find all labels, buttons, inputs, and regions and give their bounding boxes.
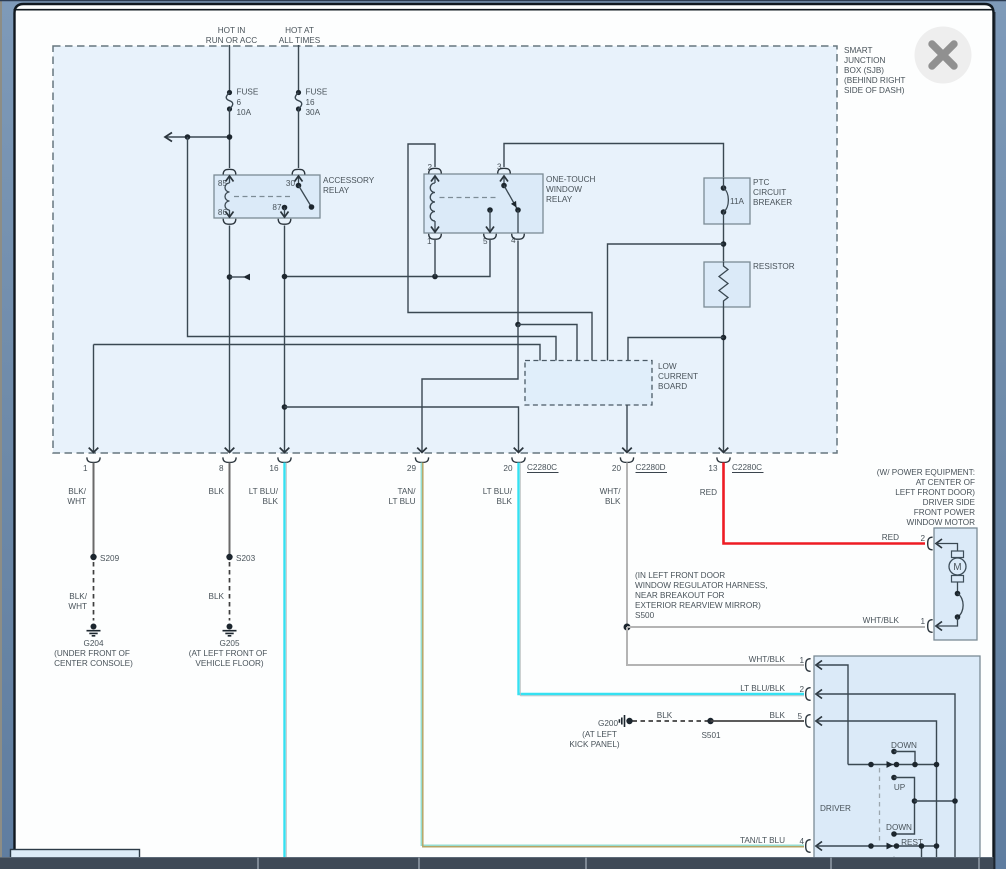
net pin87 to one-touch pin5 and pin1 xyxy=(282,240,490,279)
svg-text:29: 29 xyxy=(407,464,417,473)
svg-text:WINDOW REGULATOR HARNESS,: WINDOW REGULATOR HARNESS, xyxy=(635,581,768,590)
wire BLK S501 to driver pin5 xyxy=(711,720,805,722)
motor pin 2 connector xyxy=(928,537,942,550)
wire accessory pin 86 down to exit 8 xyxy=(229,226,231,452)
wire LT BLU/BLK exit20 to driver pin2 xyxy=(519,463,805,695)
motor note label xyxy=(877,468,976,527)
smart junction box SJB xyxy=(53,46,837,453)
wire dashed BLK S203 to G205 xyxy=(229,562,231,621)
wire WHT/BLK S500 to driver pin1 xyxy=(627,627,804,665)
net pin87 to exit 20 C2280C xyxy=(282,404,519,451)
connector arcs one-touch relay pins xyxy=(429,168,525,239)
svg-text:DRIVER: DRIVER xyxy=(820,804,851,813)
svg-text:LEFT FRONT DOOR): LEFT FRONT DOOR) xyxy=(895,488,975,497)
ground G205 xyxy=(189,624,268,669)
wire label TAN/LT BLU exit29 xyxy=(389,487,417,506)
splice S203 xyxy=(226,554,255,563)
feed label HOT IN RUN OR ACC xyxy=(206,26,257,45)
SJB label xyxy=(844,46,905,95)
driver internal row2 xyxy=(816,845,937,847)
wire dashed BLK/WHT S209 to G204 xyxy=(93,562,95,621)
svg-text:RUN OR ACC: RUN OR ACC xyxy=(206,36,257,45)
svg-text:UP: UP xyxy=(894,783,906,792)
driver pin 5 connector xyxy=(806,715,822,728)
svg-text:RED: RED xyxy=(882,533,899,542)
svg-text:20: 20 xyxy=(503,464,513,473)
svg-text:4: 4 xyxy=(799,837,804,846)
wire resistor to exit 13 with junction xyxy=(721,307,727,451)
exit arrows at SJB bottom border xyxy=(89,448,729,453)
driver internal wire pin2 down xyxy=(816,694,955,801)
svg-text:HOT IN: HOT IN xyxy=(218,26,246,35)
wire fuse 6 to accessory relay pin 85 xyxy=(229,109,231,168)
wire hot-in feed to fuse 6 xyxy=(229,45,231,93)
svg-text:G204: G204 xyxy=(83,639,103,648)
wire accessory pin 87 down to exit 16 xyxy=(284,226,286,452)
svg-text:FRONT POWER: FRONT POWER xyxy=(914,508,975,517)
svg-text:30A: 30A xyxy=(306,108,321,117)
svg-text:S209: S209 xyxy=(100,554,120,563)
svg-text:1: 1 xyxy=(799,656,804,665)
driver internal wire pin5 down xyxy=(816,721,937,765)
svg-text:NEAR BREAKOUT FOR: NEAR BREAKOUT FOR xyxy=(635,591,725,600)
svg-text:TAN/: TAN/ xyxy=(397,487,416,496)
svg-text:11A: 11A xyxy=(730,197,744,206)
svg-text:S500: S500 xyxy=(635,611,655,620)
svg-text:ACCESSORY: ACCESSORY xyxy=(323,176,375,185)
driver pin 1 connector xyxy=(806,659,822,672)
driver window switch box xyxy=(814,656,980,860)
driver pin 4 connector xyxy=(806,840,822,853)
exit pin number labels xyxy=(83,464,718,473)
window motor M1 box xyxy=(934,528,977,640)
svg-text:LOW: LOW xyxy=(658,362,677,371)
svg-text:G200: G200 xyxy=(598,719,618,728)
svg-text:SIDE OF DASH): SIDE OF DASH) xyxy=(844,86,905,95)
driver row1 junction dots and wiper arrow xyxy=(868,761,939,768)
svg-text:30: 30 xyxy=(286,179,296,188)
driver internal vertical pin2 net xyxy=(954,801,956,858)
junction pin4 net xyxy=(515,322,521,328)
svg-text:KICK PANEL): KICK PANEL) xyxy=(569,740,620,749)
wire BLK/WHT exit1 to S209 xyxy=(93,463,95,558)
svg-text:BLK/: BLK/ xyxy=(68,487,86,496)
svg-text:FUSE: FUSE xyxy=(237,88,259,97)
svg-text:2: 2 xyxy=(799,685,804,694)
wire RED exit13 to motor pin2 xyxy=(724,463,926,544)
splice S209 xyxy=(90,554,119,563)
ground G200 xyxy=(569,715,632,749)
wire LCB output to exit 20 C2280D xyxy=(626,405,628,451)
svg-text:8: 8 xyxy=(219,464,224,473)
PTC circuit breaker CB1 xyxy=(704,178,792,224)
accessory relay switch pin 30-87 xyxy=(281,176,315,218)
driver UP node link to pin2 net xyxy=(912,798,958,804)
svg-text:BLK: BLK xyxy=(497,497,513,506)
svg-text:JUNCTION: JUNCTION xyxy=(844,56,885,65)
svg-text:6: 6 xyxy=(237,98,242,107)
low current board A1 xyxy=(525,361,698,406)
svg-text:DOWN: DOWN xyxy=(891,741,917,750)
driver internal row1 xyxy=(848,764,937,766)
connector C2280C label xyxy=(527,463,559,473)
motor pin 1 connector xyxy=(928,620,942,633)
wire one-touch pin4 to junction xyxy=(517,241,519,325)
svg-text:S203: S203 xyxy=(236,554,256,563)
svg-text:AT CENTER OF: AT CENTER OF xyxy=(916,478,975,487)
svg-text:(UNDER FRONT OF: (UNDER FRONT OF xyxy=(54,649,130,658)
svg-text:(BEHIND RIGHT: (BEHIND RIGHT xyxy=(844,76,905,85)
svg-text:1: 1 xyxy=(920,617,925,626)
svg-text:C2280D: C2280D xyxy=(636,463,666,472)
svg-text:EXTERIOR REARVIEW MIRROR): EXTERIOR REARVIEW MIRROR) xyxy=(635,601,761,610)
wire label LT BLU/BLK exit20 C2280C xyxy=(483,487,513,506)
wire x187.5 down to LCB input 2 xyxy=(188,137,557,361)
wire TAN/LT BLU exit29 to driver pin4 xyxy=(421,463,804,847)
wire pin4 net to LCB input 3 xyxy=(518,325,577,361)
wire label LT BLU/BLK exit16 xyxy=(249,487,279,506)
svg-text:PTC: PTC xyxy=(753,178,769,187)
svg-text:S501: S501 xyxy=(701,731,721,740)
wire WHT/BLK exit20 C2280D to S500 xyxy=(626,463,628,628)
driver row2 junction dots and wiper arrow xyxy=(868,843,939,850)
svg-text:WHT/BLK: WHT/BLK xyxy=(749,655,786,664)
splice S501 xyxy=(701,718,721,740)
bottom toolbar xyxy=(0,857,994,869)
svg-text:CENTER CONSOLE): CENTER CONSOLE) xyxy=(54,659,133,668)
svg-text:ONE-TOUCH: ONE-TOUCH xyxy=(546,175,596,184)
wire fuse 16 to accessory relay pin 30 xyxy=(298,109,300,168)
svg-text:BOARD: BOARD xyxy=(658,382,687,391)
wire label WHT/BLK exit20 C2280D xyxy=(600,487,622,506)
svg-text:BLK: BLK xyxy=(770,711,786,720)
wire exit 1 to LCB input 1 xyxy=(94,345,541,452)
accessory relay coil pins 85-86 xyxy=(225,176,234,218)
driver mechanical dashed link xyxy=(879,768,881,843)
svg-text:G205: G205 xyxy=(219,639,239,648)
svg-text:WINDOW MOTOR: WINDOW MOTOR xyxy=(906,518,975,527)
wire label BLK/WHT at ground xyxy=(68,592,87,611)
svg-text:FUSE: FUSE xyxy=(306,88,328,97)
wire pin4 net to exit 29 xyxy=(422,325,518,452)
svg-text:CIRCUIT: CIRCUIT xyxy=(753,188,786,197)
wire BLK exit8 to S203 xyxy=(229,463,231,558)
svg-text:ALL TIMES: ALL TIMES xyxy=(279,36,321,45)
svg-text:BLK: BLK xyxy=(657,711,673,720)
svg-text:DRIVER SIDE: DRIVER SIDE xyxy=(923,498,976,507)
one-touch relay pin 5 internal xyxy=(486,207,494,233)
driver internal vertical pin5 net xyxy=(936,765,938,859)
svg-text:CURRENT: CURRENT xyxy=(658,372,698,381)
svg-text:10A: 10A xyxy=(237,108,252,117)
svg-text:20: 20 xyxy=(612,464,622,473)
svg-text:WHT/BLK: WHT/BLK xyxy=(863,616,900,625)
feed label HOT AT ALL TIMES xyxy=(279,26,321,45)
partial diagram box bottom-left xyxy=(11,850,140,861)
junction on pin86 wire with stub arrow xyxy=(227,274,250,281)
svg-text:LT BLU/: LT BLU/ xyxy=(483,487,513,496)
svg-text:RESISTOR: RESISTOR xyxy=(753,262,795,271)
motor M1 internals xyxy=(936,544,966,627)
svg-text:BLK: BLK xyxy=(209,592,225,601)
svg-text:WHT: WHT xyxy=(68,602,87,611)
svg-text:87: 87 xyxy=(272,203,282,212)
svg-text:C2280C: C2280C xyxy=(732,463,762,472)
wire label BLK/WHT exit1 xyxy=(67,487,86,506)
svg-text:TAN/LT BLU: TAN/LT BLU xyxy=(740,836,785,845)
svg-text:RELAY: RELAY xyxy=(546,195,573,204)
wire resistor junction to LCB input 6 xyxy=(628,338,724,361)
close button xyxy=(915,27,972,84)
connector C2280D label xyxy=(636,463,668,473)
accessory relay coil-switch dashed link xyxy=(234,196,293,198)
wire one-touch pin2 jog to LCB input 4 xyxy=(408,144,592,361)
ground G204 xyxy=(54,624,133,669)
wire hot-at feed to fuse 16 xyxy=(298,45,300,93)
svg-text:RED: RED xyxy=(700,488,717,497)
svg-text:2: 2 xyxy=(920,534,925,543)
wire dashed BLK G200 to S501 xyxy=(633,720,709,722)
wire PTC junction to LCB input 5 xyxy=(608,244,724,361)
splice S500 xyxy=(624,624,631,631)
driver DOWN contact top xyxy=(891,741,917,765)
svg-text:WHT/: WHT/ xyxy=(600,487,622,496)
svg-text:(W/ POWER EQUIPMENT:: (W/ POWER EQUIPMENT: xyxy=(877,468,975,477)
exit connector cups below border xyxy=(87,457,730,462)
wire branch at y137 with off-page arrow xyxy=(165,133,232,142)
driver UP contact xyxy=(886,775,914,837)
svg-text:(IN LEFT FRONT DOOR: (IN LEFT FRONT DOOR xyxy=(635,571,725,580)
svg-text:LT BLU: LT BLU xyxy=(389,497,416,506)
svg-text:BOX (SJB): BOX (SJB) xyxy=(844,66,884,75)
svg-text:BLK: BLK xyxy=(263,497,279,506)
wire one-touch pin3 jog to PTC breaker xyxy=(504,144,724,179)
svg-text:SMART: SMART xyxy=(844,46,873,55)
svg-text:(AT LEFT: (AT LEFT xyxy=(582,730,617,739)
fuse F6 10A xyxy=(226,88,259,118)
one-touch relay switch pin 3-4 xyxy=(500,176,521,233)
svg-text:BLK: BLK xyxy=(605,497,621,506)
driver internal wire pin1 to row1 xyxy=(816,665,848,765)
svg-text:BLK/: BLK/ xyxy=(69,592,87,601)
svg-text:LT BLU/: LT BLU/ xyxy=(249,487,279,496)
wire WHT/BLK S500 to motor pin1 xyxy=(627,626,925,628)
svg-text:HOT AT: HOT AT xyxy=(285,26,314,35)
resistor R1 xyxy=(704,262,795,307)
connector C2280C label right xyxy=(732,463,764,473)
svg-text:RELAY: RELAY xyxy=(323,186,350,195)
wire one-touch pin1 down to junction xyxy=(434,240,436,277)
connector arcs accessory relay pins xyxy=(223,169,305,224)
fuse F16 30A xyxy=(295,88,328,118)
svg-text:16: 16 xyxy=(269,464,279,473)
wire PTC to resistor with junction xyxy=(721,224,727,262)
wire LT BLU/BLK exit16 down offpage xyxy=(283,463,285,859)
svg-text:DOWN: DOWN xyxy=(886,823,912,832)
svg-text:16: 16 xyxy=(306,98,316,107)
svg-text:BLK: BLK xyxy=(209,487,225,496)
svg-text:C2280C: C2280C xyxy=(527,463,557,472)
accessory relay K1 xyxy=(214,175,375,218)
svg-text:M: M xyxy=(953,562,961,573)
one-touch window relay K2 xyxy=(424,163,596,247)
svg-text:WHT: WHT xyxy=(67,497,86,506)
svg-text:LT BLU/BLK: LT BLU/BLK xyxy=(740,684,785,693)
svg-text:WINDOW: WINDOW xyxy=(546,185,582,194)
svg-text:VEHICLE FLOOR): VEHICLE FLOOR) xyxy=(195,659,264,668)
driver REST contact xyxy=(891,838,923,862)
splice S500 note xyxy=(635,571,768,620)
svg-text:BREAKER: BREAKER xyxy=(753,198,792,207)
svg-text:13: 13 xyxy=(708,464,718,473)
one-touch relay coil pins 2-1 xyxy=(430,176,439,233)
driver pin 2 connector xyxy=(806,688,822,701)
svg-text:(AT LEFT FRONT OF: (AT LEFT FRONT OF xyxy=(189,649,268,658)
one-touch relay dashed link xyxy=(440,197,498,199)
svg-text:5: 5 xyxy=(797,712,802,721)
svg-text:1: 1 xyxy=(83,464,88,473)
